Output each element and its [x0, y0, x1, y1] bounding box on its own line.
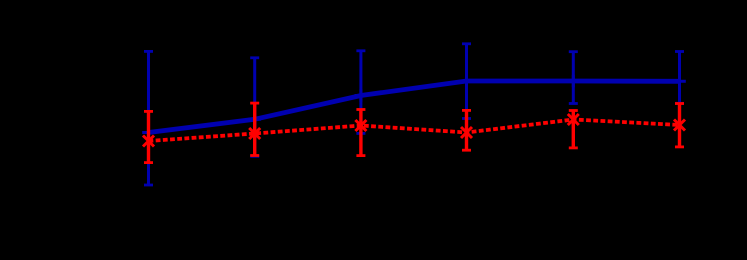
blue error bar 1 vertical — [147, 51, 150, 185]
blue error bar 2 vertical — [253, 58, 256, 157]
red error bar 1 top cap — [144, 110, 153, 113]
blue error bar 1 bottom cap — [144, 184, 153, 187]
blue error bar 5 bottom cap — [569, 102, 578, 105]
blue error bar 6 vertical — [678, 52, 681, 104]
blue error bar 6 bottom cap — [675, 102, 684, 105]
red x marker 1 — [143, 136, 154, 147]
red error bar 4 vertical — [465, 110, 468, 150]
blue plus marker 2 — [248, 113, 261, 126]
blue plus marker 3 — [355, 89, 368, 102]
blue error bar 3 top cap — [356, 49, 365, 52]
blue error bar 3 bottom cap — [356, 132, 365, 135]
blue error bar 3 vertical — [359, 51, 362, 134]
blue error bar 2 top cap — [250, 56, 259, 59]
red x marker 5 — [568, 114, 579, 125]
red x marker 3 — [355, 120, 366, 131]
red error bar 1 bottom cap — [144, 161, 153, 164]
red x marker 4 — [461, 127, 472, 138]
red error bar 2 bottom cap — [250, 154, 259, 157]
red error bar 3 top cap — [356, 108, 365, 111]
red x marker 6 — [674, 120, 685, 131]
red error bar 4 bottom cap — [462, 149, 471, 152]
red error bar 5 vertical — [572, 111, 575, 148]
red error bar 3 bottom cap — [356, 154, 365, 157]
blue plus marker 5 — [567, 75, 580, 88]
red dashed data line — [149, 120, 680, 142]
blue error bar 4 top cap — [462, 42, 471, 45]
red error bar 5 bottom cap — [569, 146, 578, 149]
blue error bar 6 top cap — [675, 50, 684, 53]
blue error bar 5 top cap — [569, 50, 578, 53]
red error bar 5 top cap — [569, 109, 578, 112]
red error bar 6 top cap — [675, 102, 684, 105]
blue plus marker 1 — [142, 126, 155, 139]
red error bar 1 vertical — [147, 111, 150, 162]
blue error bar 4 bottom cap — [462, 117, 471, 120]
blue error bar 5 vertical — [572, 52, 575, 104]
red error bar 2 vertical — [253, 103, 256, 155]
blue data line — [149, 81, 680, 133]
blue plus marker 4 — [460, 75, 473, 88]
blue error bar 1 top cap — [144, 50, 153, 53]
red error bar 3 vertical — [359, 110, 362, 156]
red error bar 2 top cap — [250, 102, 259, 105]
red error bar 6 vertical — [678, 104, 681, 147]
red error bar 4 top cap — [462, 109, 471, 112]
red error bar 6 bottom cap — [675, 145, 684, 148]
blue plus marker 6 — [673, 75, 686, 88]
blue error bar 4 vertical — [465, 44, 468, 119]
blue error bar 2 bottom cap — [250, 155, 259, 158]
red x marker 2 — [249, 128, 260, 139]
